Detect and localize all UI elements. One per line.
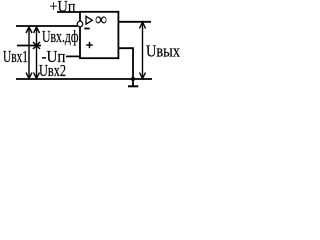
op-amp non-inverting input marker + bbox=[86, 44, 92, 46]
inverting input terminal circle bbox=[77, 21, 83, 27]
common rail wire bbox=[16, 78, 152, 80]
op-amp U1 body bbox=[80, 12, 118, 58]
wire op-amp lower pin to common rail bbox=[118, 48, 133, 79]
op-amp amplifier triangle symbol bbox=[86, 16, 92, 24]
junction dot bbox=[131, 77, 135, 81]
svg-text:Uвх1: Uвх1 bbox=[3, 47, 28, 66]
wire +Un supply to op-amp top edge bbox=[57, 11, 80, 13]
wire -Un to non-inverting input bbox=[66, 55, 80, 57]
svg-text:+Uп: +Uп bbox=[50, 0, 76, 16]
wire inverting input bbox=[16, 25, 77, 27]
wire output bbox=[118, 21, 151, 23]
svg-text:Uвх2: Uвх2 bbox=[39, 61, 66, 80]
op-amp inverting input marker - bbox=[84, 28, 89, 30]
svg-text:Uвх.дф: Uвх.дф bbox=[42, 27, 79, 46]
svg-text:∞: ∞ bbox=[95, 9, 107, 29]
voltage arrow Uvx1 (double headed) bbox=[26, 27, 32, 79]
voltage arrow Uvx.df / Uvx2 (with X junction at middle wire) bbox=[33, 27, 40, 79]
voltage arrow Uvyx (double headed) bbox=[140, 22, 146, 79]
svg-text:Uвых: Uвых bbox=[146, 41, 181, 60]
wire non-inverting input stub bbox=[17, 45, 41, 47]
ground symbol bbox=[128, 79, 138, 86]
